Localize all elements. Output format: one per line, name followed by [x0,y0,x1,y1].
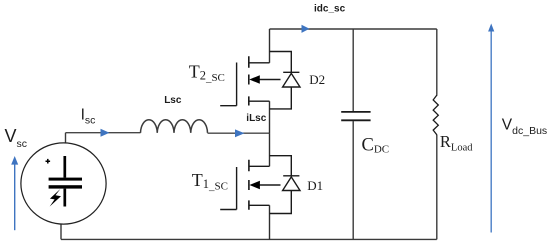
transistor T2 source lead [249,100,270,102]
wire bottom rail [61,238,437,240]
supercapacitor symbol bottom lead [63,189,66,207]
svg-text:D2: D2 [309,72,325,87]
plus sign [46,159,51,164]
wire T1 drain riser [269,133,271,166]
capacitor CDC plates [341,112,370,120]
arrow iLsc current [235,129,245,137]
diode D1 triangle [283,177,300,191]
wire main horizontal right segment [208,132,270,134]
svg-text:D1: D1 [307,178,323,193]
transistor T1 gate lead [220,167,236,210]
svg-text:Lsc: Lsc [164,95,182,106]
resistor RLoad zigzag [433,95,438,135]
transistor T1 body arrow [249,181,280,190]
supercapacitor symbol top lead [63,156,66,178]
supercapacitor plate bottom [49,185,82,188]
diode D1 cathode bar [283,175,299,177]
transistor T2 drain lead [249,62,270,64]
arrow Vsc voltage [11,156,18,230]
transistor T2 channel bar [248,56,250,105]
arrow Isc current [101,129,110,137]
wire Rload branch bottom [436,135,438,239]
wire source bottom lead [60,224,62,240]
arrow Vdc_Bus voltage [488,24,494,233]
diode D2 cathode bar [283,71,299,73]
transistor T1 drain lead [249,165,270,167]
transistor T1 channel bar [248,160,250,210]
wire T1 source riser [269,205,271,239]
wire top rail [270,28,437,30]
transistor T2 body arrow [249,75,280,84]
inductor Lsc [141,120,208,133]
voltage source circle Vsc [21,143,106,224]
svg-text:iLsc: iLsc [246,113,266,124]
diode D2 triangle [283,73,300,87]
transistor T2 gate lead [220,63,236,106]
svg-text:idc_sc: idc_sc [314,4,346,15]
supercapacitor plate top [49,178,82,181]
diode D2 branch wires [270,52,292,109]
wire source top lead [65,133,67,143]
wire main horizontal left segment [66,132,141,134]
arrow idc_sc current [302,25,310,33]
wire Cdc branch [352,29,354,239]
diode D1 branch wires [270,156,292,214]
wire T2 drain riser [269,29,271,63]
wire T2 source riser [269,101,271,133]
lightning bolt [50,189,61,207]
wire Rload branch top [436,29,438,95]
transistor T1 source lead [249,204,270,206]
